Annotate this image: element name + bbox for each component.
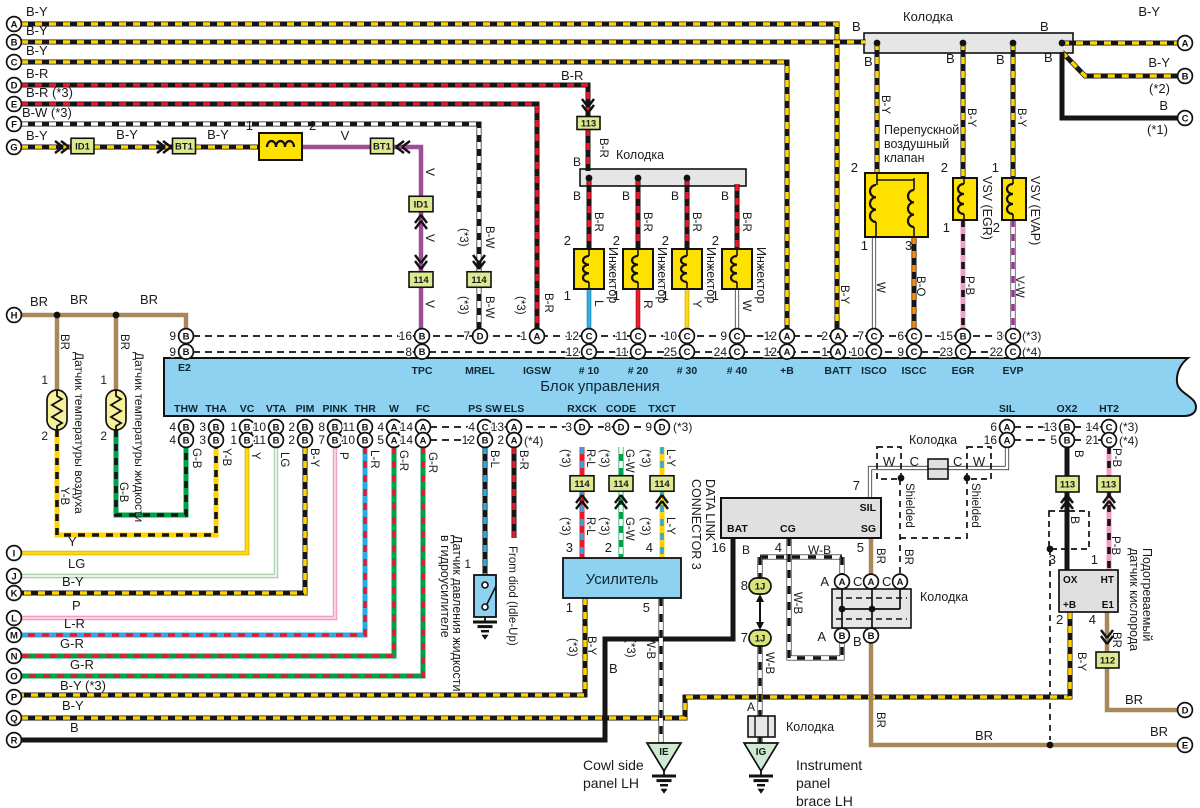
svg-text:DATA LINK: DATA LINK — [703, 479, 717, 542]
svg-text:B-W: B-W — [483, 296, 495, 319]
svg-text:G-W: G-W — [623, 517, 635, 541]
svg-text:13: 13 — [491, 420, 505, 434]
svg-text:B: B — [183, 331, 190, 342]
svg-text:B: B — [1040, 19, 1049, 34]
svg-text:B: B — [302, 422, 309, 433]
svg-text:(*2): (*2) — [1149, 81, 1170, 96]
svg-text:Усилитель: Усилитель — [586, 571, 659, 588]
svg-text:4: 4 — [169, 433, 176, 447]
svg-text:C: C — [635, 347, 642, 358]
svg-text:L-Y: L-Y — [664, 449, 676, 467]
svg-text:Датчик температуры жидкости: Датчик температуры жидкости — [132, 352, 146, 522]
svg-text:HT2: HT2 — [1099, 403, 1119, 415]
svg-text:BT1: BT1 — [175, 142, 194, 153]
svg-text:C: C — [882, 574, 891, 589]
svg-text:1: 1 — [662, 288, 669, 303]
svg-text:7: 7 — [741, 630, 748, 645]
svg-text:W: W — [740, 300, 754, 312]
svg-text:B: B — [852, 19, 861, 34]
svg-text:2: 2 — [821, 329, 828, 343]
svg-text:8: 8 — [318, 420, 325, 434]
svg-text:BATT: BATT — [824, 365, 852, 377]
svg-text:2: 2 — [497, 433, 504, 447]
svg-text:B: B — [1072, 450, 1084, 458]
svg-text:2: 2 — [613, 233, 620, 248]
svg-text:B: B — [1044, 50, 1053, 65]
svg-text:B-L: B-L — [488, 450, 500, 469]
svg-text:15: 15 — [940, 329, 954, 343]
svg-text:HT: HT — [1101, 575, 1114, 586]
svg-text:O: O — [10, 671, 17, 682]
svg-text:ISCO: ISCO — [861, 365, 887, 377]
svg-text:RXCK: RXCK — [567, 403, 597, 415]
svg-text:B-Y: B-Y — [207, 127, 229, 142]
svg-text:P: P — [11, 692, 18, 703]
svg-text:B: B — [671, 189, 679, 203]
svg-text:W: W — [973, 454, 986, 469]
svg-text:D: D — [659, 422, 666, 433]
svg-text:G: G — [10, 142, 17, 153]
svg-text:Колодка: Колодка — [903, 9, 954, 24]
svg-text:B: B — [332, 422, 339, 433]
svg-text:Колодка: Колодка — [786, 720, 834, 734]
svg-text:E1: E1 — [1102, 600, 1115, 611]
svg-text:D: D — [1182, 705, 1189, 716]
svg-text:(*4): (*4) — [1022, 345, 1041, 359]
svg-text:G-W: G-W — [623, 449, 635, 473]
svg-text:C: C — [586, 331, 593, 342]
svg-text:LG: LG — [278, 452, 290, 467]
svg-text:B: B — [302, 435, 309, 446]
svg-text:EVP: EVP — [1002, 365, 1023, 377]
svg-text:(*3): (*3) — [598, 449, 610, 468]
svg-text:24: 24 — [714, 345, 728, 359]
svg-text:B-Y: B-Y — [838, 285, 850, 305]
svg-text:10: 10 — [851, 345, 865, 359]
svg-text:C: C — [734, 347, 741, 358]
svg-text:1: 1 — [246, 118, 253, 133]
svg-text:W-B: W-B — [791, 592, 803, 614]
svg-text:B: B — [362, 422, 369, 433]
svg-text:C: C — [1182, 113, 1189, 124]
svg-text:H: H — [11, 310, 18, 321]
svg-text:L: L — [11, 613, 17, 624]
svg-text:4: 4 — [377, 420, 384, 434]
svg-text:B-Y (*3): B-Y (*3) — [60, 678, 106, 693]
svg-text:7: 7 — [853, 478, 860, 493]
svg-text:5: 5 — [643, 600, 650, 615]
svg-text:IGSW: IGSW — [523, 365, 551, 377]
svg-text:Колодка: Колодка — [616, 148, 664, 162]
svg-text:B-R (*3): B-R (*3) — [26, 85, 73, 100]
svg-text:BR: BR — [30, 294, 48, 309]
svg-text:C: C — [635, 331, 642, 342]
svg-text:From diod (Idle-Up): From diod (Idle-Up) — [506, 546, 518, 646]
svg-text:B-W: B-W — [483, 226, 495, 249]
svg-text:V: V — [423, 168, 437, 176]
svg-text:16: 16 — [712, 540, 726, 555]
svg-text:A: A — [1004, 435, 1011, 446]
svg-text:12: 12 — [462, 433, 476, 447]
svg-text:112: 112 — [1100, 656, 1115, 667]
svg-text:G-B: G-B — [117, 482, 129, 503]
svg-text:1: 1 — [613, 288, 620, 303]
svg-text:B-O: B-O — [914, 276, 926, 297]
svg-text:# 10: # 10 — [579, 365, 600, 377]
svg-text:L-Y: L-Y — [664, 517, 676, 535]
svg-text:IG: IG — [756, 747, 767, 758]
svg-text:B-R: B-R — [542, 293, 554, 313]
svg-text:2: 2 — [288, 433, 295, 447]
svg-text:Y: Y — [249, 452, 261, 460]
svg-text:G-B: G-B — [190, 448, 202, 469]
svg-text:(*3): (*3) — [624, 639, 636, 658]
svg-text:1: 1 — [230, 420, 237, 434]
svg-text:B: B — [11, 37, 18, 48]
svg-text:B: B — [622, 189, 630, 203]
svg-text:BR: BR — [58, 334, 70, 350]
svg-text:2: 2 — [941, 160, 948, 175]
svg-text:B: B — [946, 51, 955, 66]
svg-text:EGR: EGR — [952, 365, 975, 377]
svg-text:9: 9 — [897, 345, 904, 359]
svg-text:Y: Y — [68, 534, 77, 549]
svg-text:A: A — [11, 19, 18, 30]
svg-text:клапан: клапан — [884, 151, 925, 165]
svg-text:R-L: R-L — [584, 449, 596, 468]
svg-text:2: 2 — [564, 233, 571, 248]
svg-text:114: 114 — [613, 479, 629, 490]
svg-text:C: C — [853, 574, 862, 589]
svg-text:W-B: W-B — [644, 637, 656, 659]
svg-text:OX2: OX2 — [1056, 403, 1077, 415]
svg-text:Колодка: Колодка — [909, 433, 957, 447]
svg-text:B-Y: B-Y — [308, 448, 320, 468]
svg-text:W-B: W-B — [808, 543, 831, 557]
svg-text:Датчик температуры воздуха: Датчик температуры воздуха — [72, 352, 86, 514]
svg-text:Подогреваемый: Подогреваемый — [1140, 548, 1154, 641]
svg-text:2: 2 — [712, 233, 719, 248]
svg-text:(*3): (*3) — [673, 420, 692, 434]
svg-text:1: 1 — [564, 288, 571, 303]
svg-text:4: 4 — [468, 420, 475, 434]
svg-text:B: B — [864, 54, 873, 69]
svg-text:F: F — [11, 119, 17, 130]
svg-text:(*3): (*3) — [457, 296, 469, 315]
svg-text:P-B: P-B — [1109, 536, 1121, 556]
svg-text:B-Y: B-Y — [26, 128, 48, 143]
svg-text:1: 1 — [41, 373, 48, 387]
svg-text:SIL: SIL — [999, 403, 1016, 415]
svg-text:B: B — [332, 435, 339, 446]
svg-text:12: 12 — [764, 345, 778, 359]
svg-text:# 30: # 30 — [677, 365, 698, 377]
svg-text:CG: CG — [780, 523, 796, 535]
svg-text:воздушный: воздушный — [884, 137, 949, 151]
svg-text:W: W — [874, 282, 886, 293]
svg-text:C: C — [871, 331, 878, 342]
svg-text:B: B — [213, 422, 220, 433]
svg-text:1J: 1J — [755, 582, 766, 593]
svg-text:G-R: G-R — [60, 636, 84, 651]
svg-text:K: K — [11, 588, 18, 599]
svg-text:A: A — [820, 574, 829, 589]
svg-text:THA: THA — [205, 403, 227, 415]
svg-text:V: V — [341, 128, 350, 143]
svg-text:B-Y: B-Y — [585, 636, 597, 656]
svg-text:A: A — [868, 577, 875, 588]
svg-text:(*3): (*3) — [598, 517, 610, 536]
svg-text:Q: Q — [10, 713, 17, 724]
svg-text:I: I — [13, 548, 16, 559]
svg-text:LG: LG — [68, 556, 85, 571]
svg-text:B-R: B-R — [740, 212, 752, 232]
svg-text:C: C — [1106, 435, 1113, 446]
svg-text:VSV (EGR): VSV (EGR) — [980, 176, 994, 240]
svg-text:12: 12 — [566, 345, 580, 359]
svg-text:Y-B: Y-B — [58, 487, 70, 505]
svg-text:B-Y: B-Y — [26, 43, 48, 58]
svg-text:BR: BR — [902, 549, 914, 565]
svg-text:PS SW: PS SW — [468, 403, 502, 415]
svg-text:BAT: BAT — [727, 523, 748, 535]
svg-text:C: C — [911, 347, 918, 358]
svg-text:1: 1 — [464, 557, 471, 571]
svg-text:3: 3 — [199, 420, 206, 434]
svg-text:ISCC: ISCC — [901, 365, 927, 377]
svg-text:B: B — [213, 435, 220, 446]
svg-text:BR: BR — [874, 712, 886, 728]
svg-text:PIM: PIM — [296, 403, 315, 415]
svg-text:5: 5 — [857, 540, 864, 555]
svg-text:4: 4 — [1089, 612, 1096, 627]
svg-text:(*3): (*3) — [1119, 420, 1138, 434]
svg-text:B-Y: B-Y — [26, 4, 48, 19]
svg-text:B-R: B-R — [592, 212, 604, 232]
svg-text:Перепускной: Перепускной — [884, 123, 959, 137]
svg-text:B: B — [273, 435, 280, 446]
svg-text:B: B — [996, 52, 1005, 67]
svg-text:4: 4 — [169, 420, 176, 434]
svg-text:M: M — [10, 630, 18, 641]
svg-text:9: 9 — [169, 345, 176, 359]
svg-text:25: 25 — [664, 345, 678, 359]
svg-text:C: C — [734, 331, 741, 342]
svg-text:B: B — [609, 661, 618, 676]
svg-text:1: 1 — [520, 329, 527, 343]
svg-text:B: B — [419, 347, 426, 358]
svg-text:(*3): (*3) — [639, 449, 651, 468]
svg-text:(*3): (*3) — [457, 228, 469, 247]
svg-text:panel: panel — [796, 775, 830, 791]
svg-text:A: A — [1004, 422, 1011, 433]
svg-text:B-Y: B-Y — [1148, 55, 1170, 70]
svg-text:A: A — [391, 435, 398, 446]
svg-text:1: 1 — [712, 288, 719, 303]
svg-text:B: B — [183, 435, 190, 446]
svg-text:FC: FC — [416, 403, 430, 415]
svg-text:W: W — [883, 454, 896, 469]
svg-text:B-R: B-R — [561, 68, 583, 83]
svg-text:R-L: R-L — [584, 517, 596, 536]
svg-text:10: 10 — [342, 433, 356, 447]
svg-text:23: 23 — [940, 345, 954, 359]
svg-text:C: C — [1010, 347, 1017, 358]
svg-text:B: B — [868, 631, 875, 642]
svg-text:B: B — [573, 155, 581, 169]
svg-text:A: A — [511, 422, 518, 433]
svg-text:B: B — [244, 435, 251, 446]
svg-text:Shielded: Shielded — [969, 483, 981, 528]
svg-text:7: 7 — [463, 329, 470, 343]
svg-text:B: B — [1064, 435, 1071, 446]
svg-text:(*3): (*3) — [514, 296, 526, 315]
svg-text:B-Y: B-Y — [116, 127, 138, 142]
svg-text:A: A — [511, 435, 518, 446]
svg-text:6: 6 — [897, 329, 904, 343]
svg-text:TXCT: TXCT — [648, 403, 676, 415]
svg-text:10: 10 — [664, 329, 678, 343]
svg-text:G-R: G-R — [397, 450, 409, 471]
svg-text:B: B — [244, 422, 251, 433]
svg-text:датчик кислорода: датчик кислорода — [1127, 548, 1141, 651]
svg-text:2: 2 — [288, 420, 295, 434]
svg-text:R: R — [11, 735, 18, 746]
svg-text:BR: BR — [874, 548, 886, 564]
svg-text:A: A — [784, 347, 791, 358]
svg-text:113: 113 — [1060, 480, 1075, 491]
svg-text:panel LH: panel LH — [583, 775, 639, 791]
svg-text:B-Y: B-Y — [1015, 108, 1027, 128]
svg-text:B: B — [70, 720, 79, 735]
svg-text:# 40: # 40 — [727, 365, 748, 377]
svg-text:B-Y: B-Y — [879, 95, 891, 115]
svg-text:6: 6 — [990, 420, 997, 434]
svg-text:A: A — [784, 331, 791, 342]
svg-text:ID1: ID1 — [414, 200, 430, 211]
svg-text:SG: SG — [861, 523, 876, 535]
svg-text:BR: BR — [1110, 632, 1122, 648]
svg-text:(*3): (*3) — [1022, 329, 1041, 343]
svg-text:(*3): (*3) — [639, 517, 651, 536]
svg-text:C: C — [586, 347, 593, 358]
svg-text:114: 114 — [574, 479, 590, 490]
svg-text:P: P — [72, 598, 81, 613]
svg-text:14: 14 — [400, 433, 414, 447]
svg-text:11: 11 — [616, 345, 629, 359]
svg-text:BR: BR — [1150, 724, 1168, 739]
svg-text:B: B — [721, 189, 729, 203]
svg-text:3: 3 — [1049, 552, 1056, 567]
svg-text:11: 11 — [616, 329, 629, 343]
svg-text:ID1: ID1 — [75, 142, 91, 153]
svg-text:BR: BR — [118, 334, 130, 350]
svg-text:CONNECTOR 3: CONNECTOR 3 — [689, 479, 703, 570]
svg-text:12: 12 — [764, 329, 778, 343]
svg-text:12: 12 — [566, 329, 580, 343]
svg-text:A: A — [839, 577, 846, 588]
svg-text:9: 9 — [720, 329, 727, 343]
svg-text:C: C — [911, 331, 918, 342]
svg-text:THR: THR — [354, 403, 376, 415]
svg-text:P: P — [337, 452, 349, 460]
svg-text:2: 2 — [100, 429, 107, 443]
svg-text:(*3): (*3) — [566, 638, 578, 657]
svg-text:B-Y: B-Y — [965, 108, 977, 128]
svg-text:11: 11 — [343, 420, 356, 434]
svg-text:V-W: V-W — [1013, 276, 1025, 298]
svg-text:C: C — [482, 422, 489, 433]
svg-text:# 20: # 20 — [628, 365, 649, 377]
svg-text:C: C — [871, 347, 878, 358]
svg-text:A: A — [835, 347, 842, 358]
svg-text:16: 16 — [984, 433, 998, 447]
svg-text:B-R: B-R — [597, 138, 609, 158]
svg-text:D: D — [579, 422, 586, 433]
svg-text:VC: VC — [240, 403, 255, 415]
svg-text:SIL: SIL — [860, 502, 877, 514]
svg-text:D: D — [618, 422, 625, 433]
svg-text:(*4): (*4) — [1119, 434, 1138, 448]
svg-text:OX: OX — [1063, 575, 1078, 586]
svg-text:C: C — [1010, 331, 1017, 342]
svg-text:B: B — [1159, 98, 1168, 113]
svg-text:B-Y: B-Y — [1075, 652, 1087, 672]
svg-text:14: 14 — [400, 420, 414, 434]
svg-text:4: 4 — [646, 540, 653, 555]
svg-text:4: 4 — [775, 540, 782, 555]
svg-text:(*4): (*4) — [524, 434, 543, 448]
svg-text:G-R: G-R — [426, 452, 438, 473]
svg-text:ELS: ELS — [504, 403, 524, 415]
svg-text:C: C — [953, 454, 962, 469]
svg-text:B: B — [183, 422, 190, 433]
svg-text:3: 3 — [199, 433, 206, 447]
svg-text:B-Y: B-Y — [1138, 4, 1160, 19]
svg-text:114: 114 — [654, 479, 670, 490]
svg-text:5: 5 — [377, 433, 384, 447]
svg-text:Cowl side: Cowl side — [583, 757, 644, 773]
svg-text:8: 8 — [741, 578, 748, 593]
svg-text:2: 2 — [41, 429, 48, 443]
svg-text:VSV (EVAP): VSV (EVAP) — [1028, 176, 1042, 245]
svg-text:A: A — [391, 422, 398, 433]
svg-text:14: 14 — [1086, 420, 1100, 434]
svg-text:BT1: BT1 — [373, 142, 392, 153]
svg-text:TPC: TPC — [412, 365, 433, 377]
svg-text:B-R: B-R — [641, 212, 653, 232]
svg-text:16: 16 — [399, 329, 413, 343]
svg-text:W: W — [389, 403, 399, 415]
svg-text:2: 2 — [605, 540, 612, 555]
svg-text:R: R — [641, 300, 655, 309]
svg-text:+B: +B — [780, 365, 794, 377]
svg-text:B-Y: B-Y — [26, 23, 48, 38]
svg-text:B-Y: B-Y — [62, 574, 84, 589]
svg-text:MREL: MREL — [465, 365, 495, 377]
svg-text:1: 1 — [943, 220, 950, 235]
svg-text:C: C — [684, 347, 691, 358]
svg-text:B: B — [573, 189, 581, 203]
svg-text:W-B: W-B — [763, 652, 775, 674]
svg-text:THW: THW — [174, 403, 198, 415]
svg-text:113: 113 — [581, 119, 596, 130]
svg-text:3: 3 — [565, 420, 572, 434]
svg-text:1: 1 — [230, 433, 237, 447]
svg-text:B: B — [183, 347, 190, 358]
svg-text:114: 114 — [471, 275, 487, 286]
svg-text:P-B: P-B — [1110, 448, 1122, 468]
